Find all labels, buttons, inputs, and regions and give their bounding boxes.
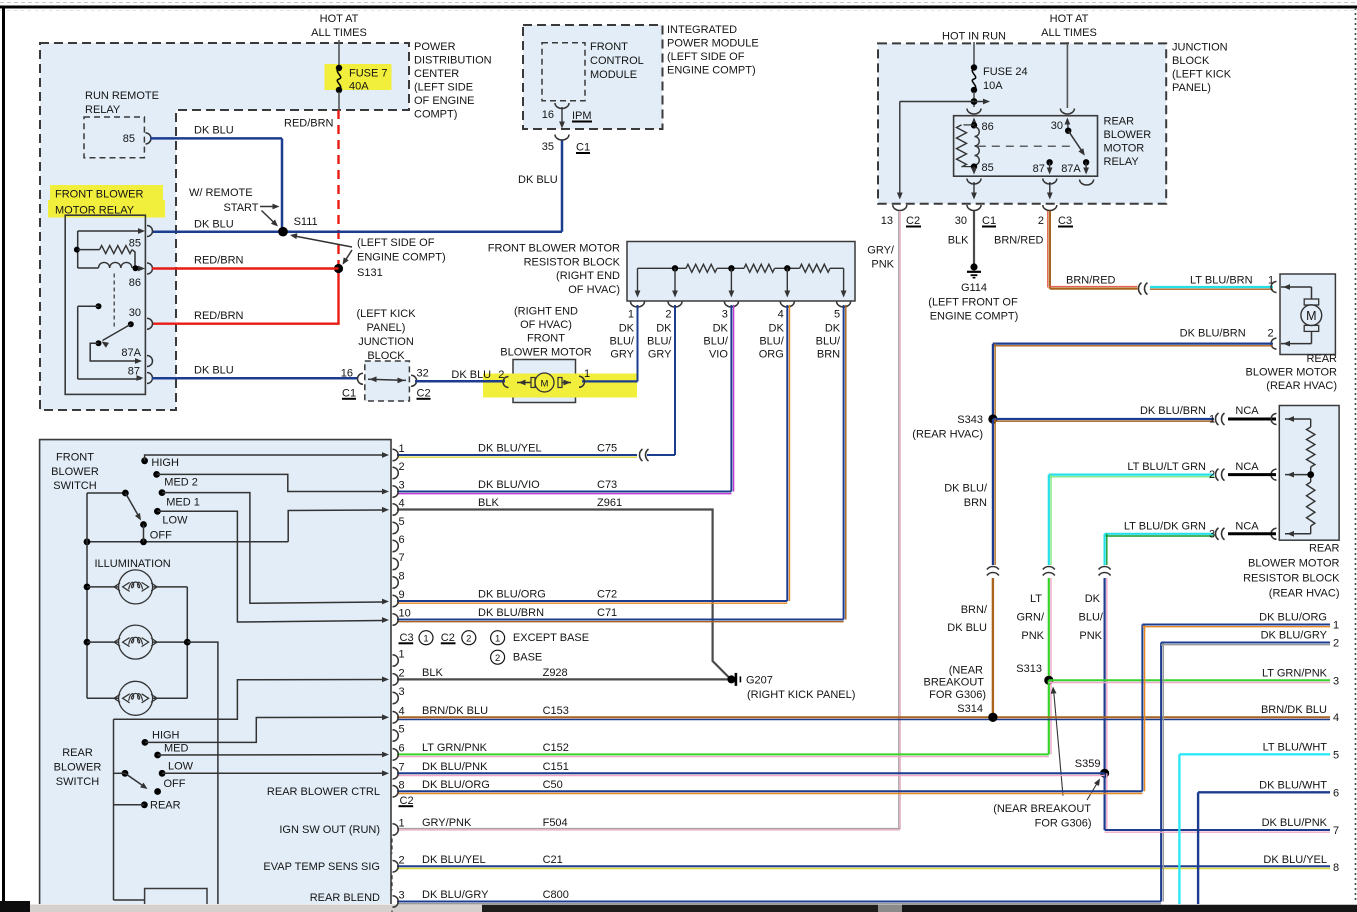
svg-text:BLU/: BLU/ — [1079, 612, 1104, 624]
svg-text:ALL TIMES: ALL TIMES — [311, 27, 367, 39]
svg-text:BRN/RED: BRN/RED — [1066, 275, 1116, 287]
svg-text:C21: C21 — [543, 854, 563, 866]
svg-text:MED 2: MED 2 — [164, 477, 198, 489]
svg-text:85: 85 — [982, 162, 994, 174]
svg-text:G114: G114 — [961, 282, 987, 294]
svg-text:1: 1 — [423, 633, 428, 644]
svg-text:2: 2 — [1268, 328, 1274, 340]
svg-text:HIGH: HIGH — [151, 457, 179, 469]
svg-text:DK: DK — [825, 323, 841, 335]
svg-text:DK BLU/PNK: DK BLU/PNK — [422, 761, 488, 773]
svg-text:ILLUMINATION: ILLUMINATION — [95, 558, 171, 570]
svg-text:87A: 87A — [1061, 163, 1081, 175]
svg-text:RESISTOR BLOCK: RESISTOR BLOCK — [1243, 573, 1340, 585]
svg-text:REAR: REAR — [1309, 543, 1340, 555]
svg-text:DK BLU/PNK: DK BLU/PNK — [1262, 817, 1328, 829]
svg-text:FUSE 24: FUSE 24 — [983, 66, 1028, 78]
svg-text:BLOWER: BLOWER — [51, 466, 99, 478]
svg-text:2: 2 — [399, 461, 405, 473]
svg-text:(LEFT KICK: (LEFT KICK — [356, 308, 416, 320]
svg-text:DK: DK — [769, 323, 785, 335]
svg-text:1: 1 — [399, 649, 405, 661]
svg-text:BRN/DK BLU: BRN/DK BLU — [422, 705, 488, 717]
svg-text:MODULE: MODULE — [590, 69, 637, 81]
svg-text:35: 35 — [542, 141, 554, 153]
svg-text:MOTOR RELAY: MOTOR RELAY — [55, 205, 135, 217]
svg-text:40A: 40A — [349, 81, 369, 93]
svg-text:EXCEPT BASE: EXCEPT BASE — [513, 632, 589, 644]
svg-text:START: START — [223, 202, 258, 214]
svg-text:C1: C1 — [576, 142, 590, 154]
svg-text:8: 8 — [399, 779, 405, 791]
svg-text:DK BLU/ORG: DK BLU/ORG — [478, 589, 546, 601]
svg-text:M: M — [1306, 309, 1316, 323]
svg-text:32: 32 — [417, 367, 429, 379]
svg-text:5: 5 — [1333, 749, 1339, 761]
svg-text:1: 1 — [1209, 414, 1215, 426]
svg-text:BRN/RED: BRN/RED — [994, 235, 1044, 247]
svg-text:BRN/: BRN/ — [961, 604, 988, 616]
svg-text:8: 8 — [1333, 862, 1339, 874]
svg-text:1: 1 — [399, 818, 405, 830]
svg-text:RELAY: RELAY — [85, 104, 121, 116]
svg-text:ENGINE COMPT): ENGINE COMPT) — [930, 310, 1019, 322]
svg-text:LT BLU/LT GRN: LT BLU/LT GRN — [1127, 461, 1206, 473]
svg-text:C75: C75 — [597, 443, 617, 455]
svg-text:C73: C73 — [597, 479, 617, 491]
svg-text:(RIGHT KICK PANEL): (RIGHT KICK PANEL) — [747, 689, 855, 701]
svg-text:BLK: BLK — [478, 497, 499, 509]
svg-text:DK BLU/YEL: DK BLU/YEL — [422, 854, 486, 866]
svg-text:LT BLU/BRN: LT BLU/BRN — [1190, 275, 1253, 287]
svg-text:2: 2 — [498, 369, 504, 381]
svg-text:REAR: REAR — [1306, 353, 1337, 365]
svg-text:(NEAR: (NEAR — [949, 664, 983, 676]
svg-text:BRN/DK BLU: BRN/DK BLU — [1261, 704, 1327, 716]
svg-text:C50: C50 — [543, 779, 563, 791]
svg-text:DISTRIBUTION: DISTRIBUTION — [414, 55, 492, 67]
svg-text:DK BLU/VIO: DK BLU/VIO — [478, 479, 540, 491]
svg-text:MED: MED — [164, 743, 189, 755]
svg-text:LT GRN/PNK: LT GRN/PNK — [422, 742, 488, 754]
svg-text:C2: C2 — [417, 387, 431, 399]
svg-text:3: 3 — [399, 480, 405, 492]
svg-text:1: 1 — [628, 309, 634, 321]
svg-text:RED/BRN: RED/BRN — [194, 255, 244, 267]
svg-text:13: 13 — [881, 215, 893, 227]
svg-text:BASE: BASE — [513, 652, 542, 664]
svg-text:30: 30 — [1051, 120, 1063, 132]
svg-text:EVAP TEMP SENS SIG: EVAP TEMP SENS SIG — [263, 861, 380, 873]
svg-text:(LEFT SIDE OF: (LEFT SIDE OF — [667, 51, 745, 63]
svg-text:(LEFT FRONT OF: (LEFT FRONT OF — [928, 297, 1018, 309]
svg-text:BLOCK: BLOCK — [1172, 55, 1210, 67]
svg-text:CENTER: CENTER — [414, 68, 459, 80]
svg-text:BRN: BRN — [964, 497, 987, 509]
svg-text:4: 4 — [399, 705, 405, 717]
svg-text:Z961: Z961 — [597, 497, 622, 509]
svg-text:16: 16 — [542, 109, 554, 121]
svg-text:PNK: PNK — [1079, 630, 1102, 642]
svg-text:3: 3 — [1209, 528, 1215, 540]
svg-text:1: 1 — [1333, 620, 1339, 632]
svg-text:C72: C72 — [597, 589, 617, 601]
svg-text:BLU/: BLU/ — [816, 335, 841, 347]
svg-text:86: 86 — [129, 277, 141, 289]
svg-text:INTEGRATED: INTEGRATED — [667, 24, 737, 36]
svg-text:LT BLU/WHT: LT BLU/WHT — [1263, 741, 1328, 753]
svg-text:85: 85 — [123, 133, 135, 145]
svg-text:DK BLU/YEL: DK BLU/YEL — [478, 443, 542, 455]
svg-text:DK: DK — [656, 323, 672, 335]
svg-text:6: 6 — [1333, 787, 1339, 799]
svg-text:FOR G306): FOR G306) — [1035, 817, 1092, 829]
svg-text:3: 3 — [399, 686, 405, 698]
svg-text:BLU/: BLU/ — [703, 335, 728, 347]
svg-text:LT BLU/DK GRN: LT BLU/DK GRN — [1124, 520, 1206, 532]
svg-text:BLOCK: BLOCK — [367, 350, 405, 362]
svg-text:LOW: LOW — [168, 761, 194, 773]
svg-text:(LEFT KICK: (LEFT KICK — [1172, 69, 1232, 81]
svg-text:DK BLU/BRN: DK BLU/BRN — [478, 607, 544, 619]
svg-text:REAR: REAR — [150, 800, 181, 812]
svg-text:10: 10 — [399, 608, 411, 620]
svg-text:BLOWER MOTOR: BLOWER MOTOR — [1246, 367, 1338, 379]
svg-text:(NEAR BREAKOUT: (NEAR BREAKOUT — [993, 803, 1091, 815]
svg-text:DK BLU/GRY: DK BLU/GRY — [1261, 630, 1328, 642]
svg-text:FRONT BLOWER: FRONT BLOWER — [55, 189, 143, 201]
svg-text:PANEL): PANEL) — [1172, 82, 1211, 94]
svg-text:C3: C3 — [1058, 215, 1072, 227]
svg-text:BLU/: BLU/ — [759, 335, 784, 347]
svg-text:DK BLU/ORG: DK BLU/ORG — [422, 779, 490, 791]
svg-text:86: 86 — [982, 121, 994, 133]
svg-text:S131: S131 — [357, 267, 383, 279]
svg-text:HOT AT: HOT AT — [1050, 13, 1089, 25]
svg-text:W/ REMOTE: W/ REMOTE — [189, 187, 253, 199]
svg-text:OFF: OFF — [150, 530, 172, 542]
svg-text:BLU/: BLU/ — [647, 335, 672, 347]
svg-text:2: 2 — [399, 854, 405, 866]
svg-text:HOT IN RUN: HOT IN RUN — [942, 31, 1006, 43]
svg-text:POWER: POWER — [414, 41, 456, 53]
svg-text:IGN SW OUT (RUN): IGN SW OUT (RUN) — [279, 824, 380, 836]
svg-text:DK BLU: DK BLU — [947, 622, 987, 634]
svg-text:NCA: NCA — [1235, 461, 1259, 473]
svg-text:C1: C1 — [982, 215, 996, 227]
svg-text:MOTOR: MOTOR — [1104, 142, 1145, 154]
svg-text:FRONT BLOWER MOTOR: FRONT BLOWER MOTOR — [488, 243, 620, 255]
svg-text:ORG: ORG — [759, 348, 784, 360]
svg-text:4: 4 — [399, 498, 405, 510]
svg-text:BLOWER: BLOWER — [54, 762, 102, 774]
svg-text:C800: C800 — [543, 889, 569, 901]
svg-text:(LEFT SIDE: (LEFT SIDE — [414, 82, 473, 94]
svg-text:4: 4 — [1333, 712, 1339, 724]
svg-text:DK BLU/GRY: DK BLU/GRY — [422, 889, 489, 901]
svg-text:RED/BRN: RED/BRN — [194, 310, 244, 322]
svg-text:GRY: GRY — [648, 348, 672, 360]
svg-text:DK BLU/BRN: DK BLU/BRN — [1180, 328, 1246, 340]
svg-text:IPM: IPM — [572, 110, 592, 122]
svg-text:1: 1 — [584, 368, 590, 380]
svg-text:2: 2 — [495, 653, 500, 664]
svg-text:C153: C153 — [543, 705, 569, 717]
svg-text:RESISTOR BLOCK: RESISTOR BLOCK — [524, 256, 621, 268]
svg-text:VIO: VIO — [709, 348, 728, 360]
svg-text:REAR BLEND: REAR BLEND — [310, 892, 380, 904]
svg-text:C71: C71 — [597, 607, 617, 619]
svg-text:C1: C1 — [342, 387, 356, 399]
svg-text:FRONT: FRONT — [56, 452, 94, 464]
svg-text:BLK: BLK — [422, 667, 443, 679]
svg-text:OF HVAC): OF HVAC) — [568, 284, 620, 296]
svg-text:6: 6 — [399, 742, 405, 754]
svg-text:5: 5 — [399, 724, 405, 736]
svg-text:FOR G306): FOR G306) — [929, 689, 986, 701]
svg-text:PANEL): PANEL) — [367, 322, 406, 334]
svg-text:DK BLU: DK BLU — [451, 369, 491, 381]
svg-text:87: 87 — [128, 366, 140, 378]
svg-text:S111: S111 — [294, 216, 318, 228]
svg-text:RELAY: RELAY — [1104, 156, 1140, 168]
svg-text:Z928: Z928 — [543, 667, 568, 679]
svg-text:7: 7 — [399, 761, 405, 773]
svg-text:HOT AT: HOT AT — [320, 13, 359, 25]
svg-text:DK BLU/: DK BLU/ — [944, 482, 988, 494]
svg-text:GRY/: GRY/ — [867, 245, 895, 257]
svg-text:RUN REMOTE: RUN REMOTE — [85, 90, 159, 102]
svg-text:DK BLU: DK BLU — [194, 365, 234, 377]
svg-text:NCA: NCA — [1235, 405, 1259, 417]
svg-text:SWITCH: SWITCH — [53, 480, 96, 492]
svg-text:4: 4 — [778, 309, 784, 321]
svg-text:DK: DK — [619, 323, 635, 335]
svg-text:FRONT: FRONT — [590, 41, 628, 53]
svg-text:(REAR HVAC): (REAR HVAC) — [1266, 380, 1337, 392]
svg-text:(RIGHT END: (RIGHT END — [514, 306, 578, 318]
svg-text:87A: 87A — [121, 347, 141, 359]
svg-text:C152: C152 — [543, 742, 569, 754]
svg-text:2: 2 — [466, 633, 471, 644]
svg-text:S313: S313 — [1016, 663, 1042, 675]
svg-text:GRN/: GRN/ — [1017, 612, 1045, 624]
svg-text:COMPT): COMPT) — [414, 109, 457, 121]
svg-text:M: M — [541, 378, 549, 389]
svg-text:MED 1: MED 1 — [166, 497, 200, 509]
svg-text:DK BLU/BRN: DK BLU/BRN — [1140, 405, 1206, 417]
svg-text:5: 5 — [834, 309, 840, 321]
svg-text:DK BLU/WHT: DK BLU/WHT — [1259, 779, 1327, 791]
svg-text:S359: S359 — [1075, 758, 1101, 770]
svg-text:JUNCTION: JUNCTION — [358, 336, 414, 348]
svg-text:3: 3 — [1333, 675, 1339, 687]
svg-text:DK BLU/ORG: DK BLU/ORG — [1259, 612, 1327, 624]
svg-text:C2: C2 — [906, 215, 920, 227]
svg-text:HIGH: HIGH — [152, 730, 180, 742]
svg-text:G207: G207 — [746, 675, 773, 687]
svg-text:CONTROL: CONTROL — [590, 55, 644, 67]
svg-text:3: 3 — [722, 309, 728, 321]
svg-text:BRN: BRN — [817, 348, 840, 360]
svg-text:SWITCH: SWITCH — [56, 776, 99, 788]
svg-text:2: 2 — [665, 309, 671, 321]
svg-text:JUNCTION: JUNCTION — [1172, 42, 1228, 54]
svg-text:OFF: OFF — [164, 778, 186, 790]
svg-text:(REAR HVAC): (REAR HVAC) — [1269, 588, 1340, 600]
svg-text:(LEFT SIDE OF: (LEFT SIDE OF — [357, 237, 435, 249]
svg-text:2: 2 — [1333, 638, 1339, 650]
svg-text:S314: S314 — [957, 703, 983, 715]
svg-text:8: 8 — [399, 571, 405, 583]
svg-text:POWER MODULE: POWER MODULE — [667, 38, 759, 50]
svg-text:2: 2 — [399, 667, 405, 679]
svg-text:1: 1 — [495, 633, 500, 644]
svg-text:DK BLU/YEL: DK BLU/YEL — [1263, 854, 1327, 866]
svg-text:BLOWER MOTOR: BLOWER MOTOR — [1248, 558, 1340, 570]
svg-text:PNK: PNK — [871, 259, 894, 271]
svg-text:OF ENGINE: OF ENGINE — [414, 95, 475, 107]
svg-text:DK: DK — [713, 323, 729, 335]
svg-text:85: 85 — [129, 238, 141, 250]
svg-text:(RIGHT END: (RIGHT END — [556, 270, 620, 282]
svg-text:FUSE 7: FUSE 7 — [349, 68, 388, 80]
svg-text:ENGINE COMPT): ENGINE COMPT) — [667, 65, 756, 77]
svg-text:BLK: BLK — [948, 235, 969, 247]
svg-text:F504: F504 — [543, 817, 568, 829]
svg-text:RED/BRN: RED/BRN — [284, 118, 334, 130]
svg-text:2: 2 — [1209, 469, 1215, 481]
svg-text:DK BLU: DK BLU — [194, 125, 234, 137]
svg-text:30: 30 — [955, 215, 967, 227]
svg-text:9: 9 — [399, 589, 405, 601]
svg-text:87: 87 — [1033, 163, 1045, 175]
svg-text:ALL TIMES: ALL TIMES — [1041, 27, 1097, 39]
svg-text:REAR BLOWER CTRL: REAR BLOWER CTRL — [267, 786, 380, 798]
svg-text:LT: LT — [1030, 593, 1042, 605]
svg-text:LT GRN/PNK: LT GRN/PNK — [1262, 667, 1328, 679]
svg-text:DK BLU: DK BLU — [194, 219, 234, 231]
svg-text:C151: C151 — [543, 761, 569, 773]
svg-text:1: 1 — [1268, 275, 1274, 287]
svg-text:2: 2 — [1038, 215, 1044, 227]
svg-text:DK: DK — [1085, 593, 1101, 605]
svg-text:5: 5 — [399, 516, 405, 528]
svg-text:FRONT: FRONT — [527, 333, 565, 345]
svg-text:6: 6 — [399, 534, 405, 546]
svg-text:3: 3 — [399, 890, 405, 902]
svg-text:BLOWER MOTOR: BLOWER MOTOR — [500, 346, 592, 358]
svg-text:30: 30 — [129, 307, 141, 319]
svg-text:BLU/: BLU/ — [610, 335, 635, 347]
svg-text:1: 1 — [399, 443, 405, 455]
svg-text:S343: S343 — [957, 414, 983, 426]
svg-text:REAR: REAR — [62, 747, 93, 759]
svg-text:10A: 10A — [983, 80, 1003, 92]
svg-text:BREAKOUT: BREAKOUT — [923, 677, 984, 689]
svg-text:ENGINE COMPT): ENGINE COMPT) — [357, 252, 446, 264]
svg-text:16: 16 — [341, 367, 353, 379]
svg-text:7: 7 — [399, 552, 405, 564]
svg-text:LOW: LOW — [162, 514, 188, 526]
svg-text:GRY/PNK: GRY/PNK — [422, 817, 472, 829]
svg-text:7: 7 — [1333, 825, 1339, 837]
svg-text:GRY: GRY — [610, 348, 634, 360]
svg-text:OF HVAC): OF HVAC) — [520, 319, 572, 331]
svg-text:PNK: PNK — [1021, 630, 1044, 642]
svg-text:(REAR HVAC): (REAR HVAC) — [912, 429, 983, 441]
svg-text:DK BLU: DK BLU — [518, 174, 558, 186]
svg-text:NCA: NCA — [1235, 520, 1259, 532]
svg-text:REAR: REAR — [1104, 115, 1135, 127]
svg-text:BLOWER: BLOWER — [1104, 129, 1152, 141]
